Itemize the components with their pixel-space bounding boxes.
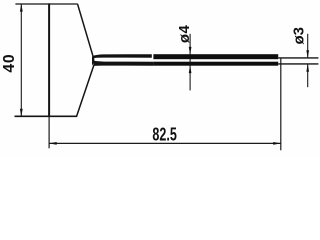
svg-text:40: 40	[1, 54, 18, 73]
dimension 82.5: right arrowhead	[273, 142, 281, 145]
dimension 82.5: left arrowhead	[49, 142, 57, 145]
dimension 82.5: right extension line from tip end	[280, 58, 282, 151]
tip end tube: bottom outline / ø3 extension line	[278, 63, 318, 65]
dimension ø4: vertical dimension line (runs under shaft bands)	[189, 34, 191, 91]
dimension ø4: upper arrowhead	[189, 47, 192, 55]
svg-text:82.5: 82.5	[152, 125, 177, 145]
shaft: upper tapered band (neck to sleeve)	[93, 54, 152, 58]
shaft sleeve: upper black band	[153, 54, 278, 59]
tip end tube: top outline / ø3 extension line	[278, 57, 318, 59]
tip body: top edge + 40-dim top extension line	[15, 3, 77, 5]
shaft neck: junction wedge	[92, 55, 94, 66]
shaft sleeve: lower black band	[153, 62, 278, 66]
dimension 82.5: left extension line below body	[48, 117, 50, 148]
dimension ø4: lower arrowhead	[189, 65, 192, 73]
tip body: lower taper slant	[77, 65, 94, 116]
tip body: left vertical edge	[48, 3, 50, 117]
shaft: lower tapered band (neck to sleeve)	[93, 61, 153, 66]
dimension 82.5: bottom dimension line	[49, 142, 281, 144]
svg-text:ø4: ø4	[176, 24, 193, 43]
dimension 40: lower arrowhead	[20, 109, 23, 117]
dimension ø3: upper dimension line with down arrowhead	[307, 34, 309, 58]
svg-text:ø3: ø3	[291, 27, 308, 45]
tip body: upper taper slant	[78, 4, 93, 56]
dimension 40: vertical dimension line	[20, 4, 22, 116]
dimension 40: upper arrowhead	[20, 4, 23, 12]
dimension ø3: lower dimension line with up arrowhead	[307, 64, 309, 87]
tip body: bottom edge + 40-dim bottom extension line	[15, 115, 78, 117]
